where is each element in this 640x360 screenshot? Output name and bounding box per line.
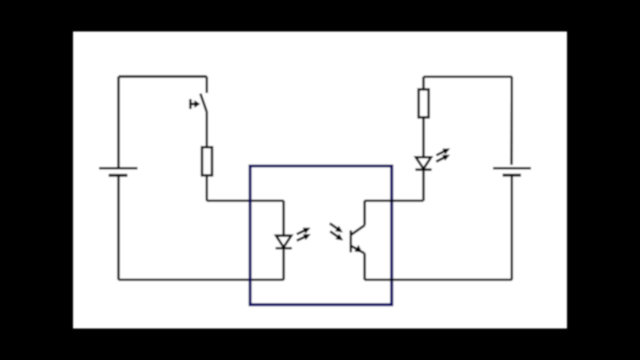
wire top-right horizontal (424, 75, 512, 77)
LED D2 (415, 148, 450, 169)
wire resistor R2 top lead (422, 77, 424, 90)
wire into optocoupler anode (207, 199, 284, 201)
wire switch to resistor (206, 112, 208, 147)
switch S1 pushbutton (190, 94, 206, 112)
wire LED D2 bottom lead (422, 170, 424, 201)
wire LED D1 bottom lead (282, 248, 284, 280)
LED D1 optocoupler input diode (276, 228, 311, 249)
wire left rail upper (117, 77, 119, 169)
resistor R1 (202, 147, 212, 175)
wire resistor R2 to LED D2 (422, 117, 424, 157)
white schematic sheet (73, 32, 567, 329)
wire collector vertical (363, 201, 365, 226)
wire right rail upper (510, 77, 513, 165)
wire switch top lead (206, 77, 208, 94)
battery V2 (493, 168, 531, 175)
wire LED D1 top lead (282, 201, 284, 236)
wire top-left horizontal (119, 75, 207, 77)
wire left rail lower (117, 175, 119, 279)
optocoupler U1 package outline (250, 166, 392, 305)
wire resistor R1 down (206, 175, 208, 200)
wire bottom-left horizontal (119, 279, 284, 281)
phototransistor Q1 (330, 223, 365, 253)
wire to collector (365, 199, 424, 201)
wire emitter lead (363, 253, 365, 279)
battery V1 (99, 168, 138, 175)
wire right rail lower (511, 175, 513, 280)
wire bottom-right horizontal (365, 279, 512, 281)
resistor R2 (419, 89, 429, 117)
